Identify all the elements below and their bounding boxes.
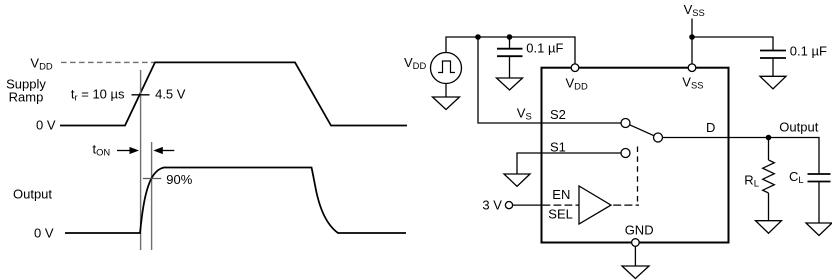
- svg-text:EN: EN: [552, 187, 570, 202]
- svg-text:D: D: [706, 120, 715, 135]
- wire source to ground: [445, 84, 447, 98]
- svg-text:0 V: 0 V: [34, 225, 54, 240]
- terminal S1 circle: [621, 149, 630, 158]
- ground under C1: [497, 78, 523, 90]
- wire dashed buffer to switch corner: [613, 204, 639, 206]
- junction node output: [766, 135, 772, 141]
- svg-text:Output: Output: [13, 186, 52, 201]
- junction node at VS branch: [475, 34, 481, 40]
- node VDD level dashed line: [61, 61, 154, 63]
- switch arm S2 to pole: [630, 125, 654, 136]
- capacitor C2 0.1uF: [760, 51, 786, 77]
- svg-text:3 V: 3 V: [482, 198, 502, 213]
- wire VS branch down to S2: [478, 37, 621, 123]
- svg-text:tr = 10 µs: tr = 10 µs: [71, 87, 125, 103]
- capacitor CL: [808, 174, 831, 223]
- node 90% tick: [143, 178, 161, 180]
- svg-text:S2: S2: [550, 107, 566, 122]
- svg-text:S1: S1: [550, 139, 566, 154]
- wire 3V to box: [513, 204, 542, 206]
- junction node at cap C1: [507, 34, 513, 40]
- wire dashed control line vertical: [637, 147, 639, 203]
- svg-text:0 V: 0 V: [36, 117, 56, 132]
- wire D to output: [663, 138, 820, 175]
- wire to RL: [768, 138, 770, 161]
- wire VSS to cap C2: [692, 37, 773, 50]
- svg-text:4.5 V: 4.5 V: [155, 87, 186, 102]
- svg-text:0.1 µF: 0.1 µF: [790, 44, 827, 59]
- node tON left arrow: [153, 147, 174, 154]
- ground at S1: [504, 174, 530, 186]
- terminal 3V circle: [505, 202, 512, 209]
- pin VDD circle: [571, 64, 579, 72]
- capacitor C1 0.1uF: [497, 49, 523, 78]
- wire GND to ground: [634, 246, 636, 266]
- ground under source: [433, 97, 460, 110]
- svg-text:SEL: SEL: [548, 207, 573, 222]
- resistor RL: [763, 160, 775, 193]
- node marker line 2 (90% crossing): [151, 142, 153, 250]
- buffer U2 triangle: [579, 186, 611, 224]
- terminal pole circle: [654, 133, 663, 142]
- node marker line 1 (4.5V crossing): [140, 70, 142, 250]
- ground under RL: [756, 221, 782, 234]
- node tON right arrow: [117, 147, 139, 154]
- wire cap C1 stub: [509, 37, 511, 49]
- junction node VSS rail: [689, 34, 695, 40]
- svg-text:Output: Output: [779, 119, 818, 134]
- wire dashed EN/SEL to buffer: [543, 204, 580, 206]
- device U1 box: [542, 68, 729, 243]
- svg-text:90%: 90%: [166, 172, 192, 187]
- svg-text:0.1 µF: 0.1 µF: [526, 40, 563, 55]
- pin GND circle: [632, 239, 640, 247]
- pin VSS circle: [688, 64, 696, 72]
- terminal S2 circle: [621, 119, 630, 128]
- wire S1 from ground: [517, 153, 621, 174]
- svg-text:GND: GND: [625, 223, 654, 238]
- wire output waveform: [65, 168, 406, 234]
- wire RL to ground: [768, 193, 770, 221]
- ground under CL: [806, 223, 832, 236]
- svg-text:Ramp: Ramp: [9, 90, 44, 105]
- source V1 VDD pulse generator: [431, 53, 462, 84]
- wire supply ramp waveform: [60, 62, 407, 125]
- ground under C2: [760, 76, 786, 89]
- wire VSS rail: [691, 19, 693, 65]
- node 4.5V tick: [132, 94, 150, 96]
- ground under GND pin: [622, 266, 649, 279]
- wire top rail VDD: [446, 37, 575, 64]
